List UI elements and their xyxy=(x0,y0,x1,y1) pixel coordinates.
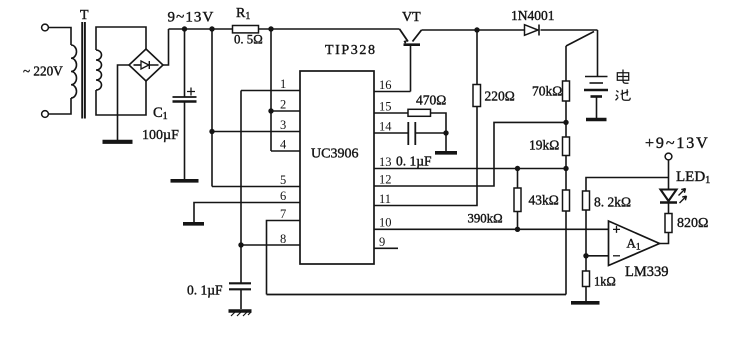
svg-text:6: 6 xyxy=(280,189,286,203)
svg-text:4: 4 xyxy=(280,138,287,152)
wire rail corner to battery xyxy=(597,30,599,77)
resistor 43k xyxy=(563,190,570,211)
capacitor 0.1uF (pin8) xyxy=(240,245,242,283)
opamp minus input wire xyxy=(586,255,609,257)
pin 12 wire xyxy=(374,122,566,186)
node rail-C1 xyxy=(182,26,187,31)
pin 7 wire xyxy=(267,221,301,295)
main rail right xyxy=(422,29,598,31)
svg-text:470Ω: 470Ω xyxy=(416,93,446,108)
pin 1 wire xyxy=(241,90,300,92)
transistor base lead to pin16 xyxy=(410,46,412,92)
pin3/pin5 riser from rail xyxy=(211,29,213,187)
svg-text:70kΩ: 70kΩ xyxy=(532,84,562,99)
transformer T primary winding xyxy=(71,45,77,98)
pin 3 wire xyxy=(212,131,300,133)
wire 820 to opamp output xyxy=(660,233,669,244)
wire bridge right to rail xyxy=(163,29,169,65)
pin2/pin4 vertical from rail xyxy=(270,29,272,151)
op-amp A1 xyxy=(609,221,660,266)
resistor 19k xyxy=(563,137,570,156)
node 8.2k/1k/opamp- xyxy=(583,253,588,258)
transformer core xyxy=(82,22,85,119)
transistor VT xyxy=(400,29,409,42)
svg-text:1kΩ: 1kΩ xyxy=(594,275,616,289)
svg-text:13: 13 xyxy=(379,155,392,169)
pin1/pin8 vertical xyxy=(240,91,242,246)
wire 70k to node xyxy=(565,101,567,137)
LED arrows xyxy=(679,189,686,196)
wire 70k top xyxy=(565,46,567,81)
wire 8.2k to 1k xyxy=(585,210,587,271)
supply line 8.2k to LED xyxy=(586,178,669,192)
svg-text:9~13V: 9~13V xyxy=(168,10,215,26)
capacitor C1 xyxy=(184,29,186,97)
svg-text:1: 1 xyxy=(280,77,286,91)
pin 15 wire xyxy=(374,112,408,114)
svg-text:1N4001: 1N4001 xyxy=(511,8,555,23)
svg-text:390kΩ: 390kΩ xyxy=(468,212,503,226)
pin 14 wire xyxy=(374,132,408,134)
node 390k/pin10 xyxy=(515,227,520,232)
resistor 8.2k xyxy=(583,191,590,210)
svg-text:LED1: LED1 xyxy=(676,169,710,186)
terminal bottom-left xyxy=(42,111,49,118)
node 70k/19k/pin12 xyxy=(563,120,568,125)
svg-text:14: 14 xyxy=(379,120,392,134)
resistor 820 xyxy=(665,214,672,233)
svg-text:VT: VT xyxy=(402,10,421,25)
wire 470 to node xyxy=(431,113,447,133)
wire 1k to ground xyxy=(585,287,587,302)
svg-text:0. 1µF: 0. 1µF xyxy=(396,154,432,169)
svg-text:100µF: 100µF xyxy=(142,128,179,143)
svg-text:0. 1µF: 0. 1µF xyxy=(187,283,223,298)
ground (C1) xyxy=(171,179,199,183)
pin 4 wire xyxy=(271,150,300,152)
svg-text:R1: R1 xyxy=(236,6,250,22)
svg-text:A1: A1 xyxy=(627,236,641,253)
ground (pin14 net) xyxy=(435,151,457,155)
node pin3 xyxy=(209,129,214,134)
node pin2 xyxy=(268,108,273,113)
pin 2 wire xyxy=(271,110,300,112)
pin 6 wire xyxy=(194,203,300,223)
svg-text:5: 5 xyxy=(280,173,286,187)
resistor 70k xyxy=(563,81,570,101)
wire rail corner diagonal to 70k xyxy=(566,32,594,47)
wire 390k top xyxy=(517,169,519,189)
bridge rectifier diamond xyxy=(129,49,163,81)
pin 8 wire xyxy=(241,244,300,246)
svg-text:220Ω: 220Ω xyxy=(485,89,515,104)
resistor 470 xyxy=(408,109,431,116)
main rail left xyxy=(169,28,400,30)
ground (bridge) xyxy=(103,140,133,144)
capacitor 0.1uF (pin14) xyxy=(407,122,409,145)
terminal +9~13V xyxy=(665,153,672,160)
wire top terminal to primary xyxy=(49,28,72,46)
pin 10 wire xyxy=(374,228,609,230)
wire bridge left to ground xyxy=(118,65,130,140)
node pin8/cap xyxy=(238,242,243,247)
bottom bus wire xyxy=(267,294,567,296)
resistor 390k xyxy=(514,188,521,212)
svg-text:12: 12 xyxy=(379,173,392,187)
wire LED to 820 xyxy=(668,203,670,214)
node rail-220ohm xyxy=(474,27,479,32)
svg-text:+9~13V: +9~13V xyxy=(645,135,710,152)
svg-text:UC3906: UC3906 xyxy=(311,147,358,162)
resistor 1k xyxy=(583,271,590,287)
svg-text:8: 8 xyxy=(280,232,286,246)
transformer T secondary winding xyxy=(96,50,102,90)
ground (1k) xyxy=(571,301,600,305)
svg-text:11: 11 xyxy=(379,192,391,206)
pin 13 wire xyxy=(374,168,566,170)
pin 5 wire xyxy=(212,186,300,188)
bridge inner diode xyxy=(134,64,142,66)
svg-text:9: 9 xyxy=(379,235,385,249)
IC U1 UC3906 body xyxy=(300,71,374,264)
svg-text:0. 5Ω: 0. 5Ω xyxy=(234,33,263,47)
node rail-pin2 riser xyxy=(268,26,273,31)
svg-text:TIP328: TIP328 xyxy=(325,43,377,58)
wire 43k bottom down to bottom bus xyxy=(565,211,567,295)
diode 1N4001 xyxy=(525,25,539,36)
battery plates xyxy=(585,76,608,78)
resistor 220 xyxy=(473,85,481,107)
pin 9 wire xyxy=(374,247,398,249)
ground (pin6) xyxy=(183,222,204,226)
node 470/cap/ground xyxy=(443,130,448,135)
svg-text:19kΩ: 19kΩ xyxy=(529,138,559,153)
wire secondary bottom xyxy=(96,81,146,115)
svg-text:LM339: LM339 xyxy=(625,264,669,280)
ground hatched (0.1uF) xyxy=(229,309,252,312)
wire node to ground xyxy=(445,133,447,151)
svg-text:15: 15 xyxy=(379,100,392,114)
wire 19k to node xyxy=(565,156,567,191)
svg-text:C1: C1 xyxy=(153,105,168,122)
terminal top-left xyxy=(42,24,49,31)
label battery xyxy=(616,70,631,101)
svg-text:8. 2kΩ: 8. 2kΩ xyxy=(594,195,631,210)
node rail-pin3/5 riser xyxy=(209,26,214,31)
svg-text:2: 2 xyxy=(280,98,286,112)
pin 11 wire xyxy=(374,107,477,206)
svg-text:3: 3 xyxy=(280,118,286,132)
node 19k/43k/pin13 xyxy=(563,166,568,171)
wire terminal to LED xyxy=(668,160,670,189)
wire 390k bottom xyxy=(517,212,519,230)
svg-text:10: 10 xyxy=(379,216,392,230)
wire bottom terminal to primary xyxy=(49,98,72,114)
node pin13/390k xyxy=(515,166,520,171)
wire 220 top to rail xyxy=(476,30,478,85)
svg-text:7: 7 xyxy=(280,207,286,221)
svg-text:T: T xyxy=(80,8,89,23)
svg-text:820Ω: 820Ω xyxy=(677,216,708,231)
svg-text:43kΩ: 43kΩ xyxy=(529,193,559,208)
LED LED1 xyxy=(661,190,677,202)
svg-text:~ 220V: ~ 220V xyxy=(23,64,63,79)
wire secondary top to bridge top xyxy=(96,27,146,50)
resistor R1 xyxy=(233,26,259,33)
svg-text:16: 16 xyxy=(379,78,392,92)
pin 16 wire xyxy=(374,91,411,93)
